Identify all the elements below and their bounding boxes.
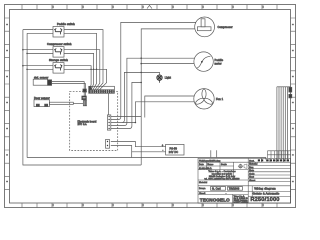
svg-text:Name: Name xyxy=(207,164,214,166)
node dots on storage switch feed xyxy=(90,69,97,71)
svg-text:Rev.: Rev. xyxy=(249,167,254,169)
svg-text:motor: motor xyxy=(215,61,222,65)
svg-text:Fan 1: Fan 1 xyxy=(216,97,224,101)
wire J2 pin1 to PS plus xyxy=(111,142,166,147)
wire S3 left xyxy=(23,66,53,70)
svg-text:Sost.: Sost. xyxy=(249,159,255,162)
wire sensor pair xyxy=(52,82,86,96)
logo block xyxy=(200,195,248,204)
wire S1 right xyxy=(64,30,103,90)
wire paddle bottom xyxy=(141,63,194,65)
svg-text:24V d.c.: 24V d.c. xyxy=(78,123,88,126)
svg-text:Note: Note xyxy=(249,169,255,172)
svg-text:Compressor: Compressor xyxy=(218,25,233,29)
svg-text:G.C.: G.C. xyxy=(207,168,212,170)
svg-text:Check: Check xyxy=(199,193,206,195)
terminal band X6 xyxy=(258,159,289,161)
sheet outer border xyxy=(5,5,296,208)
svg-text:Wiring diagram: Wiring diagram xyxy=(254,186,276,190)
svg-text:Light: Light xyxy=(165,76,171,80)
svg-text:24V DC: 24V DC xyxy=(169,151,178,154)
svg-text:Material: Material xyxy=(249,163,258,166)
door sensor S4 xyxy=(34,100,49,107)
svg-text:Compressor switch: Compressor switch xyxy=(47,42,72,46)
projection symbol xyxy=(238,164,247,169)
terminal strip X1 xyxy=(89,86,115,93)
wire pin3 to lamp xyxy=(111,72,160,122)
wire strip to J1 xyxy=(108,94,110,115)
svg-text:tel 0377 466660: tel 0377 466660 xyxy=(234,201,248,204)
svg-text:-: - xyxy=(162,149,163,152)
wire bus B left xyxy=(26,33,28,157)
wire J2 pin2 to bus xyxy=(111,146,132,158)
svg-text:Scale: Scale xyxy=(221,164,227,166)
node dots neutral xyxy=(135,57,142,123)
switch S3 Storage switch xyxy=(53,63,64,74)
connector X3 xyxy=(83,89,87,92)
svg-text:Sheet: Sheet xyxy=(249,179,255,182)
svg-text:R250/1000: R250/1000 xyxy=(250,197,279,203)
svg-text:Drawn: Drawn xyxy=(199,187,206,190)
wire stubs above bus C xyxy=(211,150,217,157)
wire door cable xyxy=(49,102,83,104)
svg-text:Material: Material xyxy=(199,181,208,184)
wire bus A left xyxy=(23,30,141,165)
title block xyxy=(198,151,291,203)
wire pin4 to paddle top xyxy=(111,58,195,125)
svg-text:tel. 0377-466660 fax 0377-4666: tel. 0377-466660 fax 0377-466690 xyxy=(205,178,241,181)
switch S2 Compressor switch xyxy=(53,47,64,58)
wire S3 right xyxy=(64,66,107,90)
mains comb X2 xyxy=(277,87,292,160)
switch S1 Paddle switch xyxy=(53,27,64,38)
wire PS minus xyxy=(132,151,166,153)
svg-text:Code: Code xyxy=(249,173,255,175)
title texts xyxy=(199,159,258,195)
node dots on left bus xyxy=(22,49,28,70)
paddle motor M2 xyxy=(194,52,213,71)
wire S1 left xyxy=(23,30,53,34)
lamp E1 xyxy=(157,75,163,83)
wire fan bottom xyxy=(135,102,194,123)
wire S2 right xyxy=(64,50,100,90)
connector X5 xyxy=(83,101,86,106)
wire pin2 to compressor top xyxy=(111,22,196,119)
fan M3 xyxy=(194,89,214,109)
wire bottom bus C xyxy=(27,158,266,160)
svg-text:Door sensor: Door sensor xyxy=(34,96,50,100)
svg-text:Heat: Heat xyxy=(249,176,254,179)
svg-text:G. Cari: G. Cari xyxy=(212,188,221,191)
compressor M1 xyxy=(195,17,215,37)
defrost sensor B1 xyxy=(33,79,51,85)
wire fan top xyxy=(145,96,194,118)
svg-text:Paddle switch: Paddle switch xyxy=(57,22,75,26)
svg-text:Gelato & Automatic: Gelato & Automatic xyxy=(253,191,280,195)
svg-text:TECNOGELO: TECNOGELO xyxy=(200,198,230,203)
svg-text:F:\dis\spm\R250.dwg: F:\dis\spm\R250.dwg xyxy=(199,160,221,162)
power supply U1 PS-50 xyxy=(166,144,184,155)
wire pin5 neutral riser xyxy=(111,29,195,165)
electronic board A1 xyxy=(70,91,118,150)
wire S2 left xyxy=(23,50,53,54)
svg-text:def. sensor: def. sensor xyxy=(34,75,48,79)
svg-text:Date: Date xyxy=(199,163,205,166)
connector X4 xyxy=(82,96,87,100)
connector J2 2-pin xyxy=(106,140,110,149)
wire pin1 to bus A xyxy=(111,116,141,118)
svg-text:7/8/2003: 7/8/2003 xyxy=(229,188,240,191)
connector J1 5-pin xyxy=(107,115,110,130)
svg-text:Storage switch: Storage switch xyxy=(49,58,68,62)
